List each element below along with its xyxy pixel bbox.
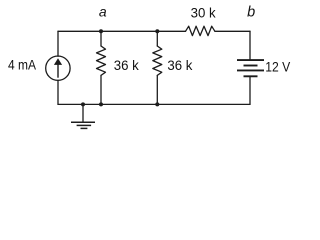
resistor 30 k (horizontal, between node a and node b) [186,26,215,35]
junction dot top of R2 [155,29,159,33]
wire right column lower (battery bottom lead) [249,77,251,104]
wire R1 top lead [100,31,102,46]
junction dot bottom of R2 [155,102,159,106]
junction dot bottom of R1 [99,102,103,106]
svg-text:a: a [99,4,107,20]
wire left column upper (source top lead) [57,31,59,56]
svg-text:30 k: 30 k [191,6,216,21]
battery V 12 V plates [237,60,264,76]
resistor R2 36 k (vertical) [153,46,162,75]
wire R2 top lead [156,31,158,46]
svg-text:b: b [247,5,255,21]
wire right column upper (battery top lead) [249,31,251,59]
wire bottom rail [58,103,250,105]
svg-text:12 V: 12 V [265,60,291,75]
wire left column lower (source bottom lead) [57,80,59,104]
wire R1 bottom lead [100,75,102,104]
wire top from current source to node a to 30k [58,30,186,32]
wire R2 bottom lead [156,75,158,104]
wire top from 30k to node b corner [215,30,250,32]
svg-text:4 mA: 4 mA [8,57,37,72]
resistor R1 36 k (vertical, node a) [97,46,106,75]
junction dot ground [81,102,85,106]
current source arrow [54,58,62,77]
ground [71,104,95,128]
junction dot node a [99,29,103,33]
svg-text:36 k: 36 k [167,58,192,73]
svg-text:36 k: 36 k [114,58,139,73]
current source circle (4 mA) [46,56,70,80]
